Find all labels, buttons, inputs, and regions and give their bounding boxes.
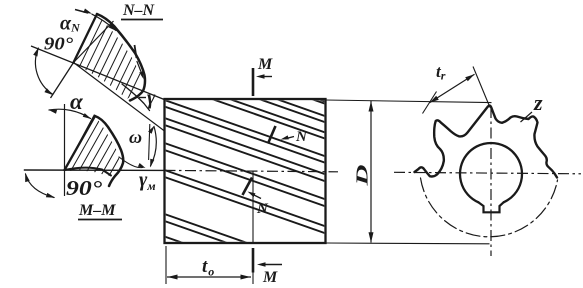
helix tooth line 10: [165, 221, 326, 277]
helix tooth line 5: [165, 143, 326, 199]
tooth back curve N-N: [97, 14, 145, 101]
end view vertical centerline: [490, 107, 492, 256]
tooth face line N-N: [74, 14, 98, 63]
svg-text:N: N: [295, 129, 308, 145]
tooth face line M-M: [65, 116, 96, 170]
helix tooth line 16: [312, 99, 326, 104]
svg-text:M: M: [257, 56, 273, 73]
helix tooth line 9: [165, 214, 326, 270]
dimension t_t line with arrows: [430, 74, 475, 103]
axis centerline dash-dot: [165, 170, 339, 171]
keyway: [478, 202, 503, 212]
helix tooth line 11: [165, 237, 326, 288]
dimension D line with arrows: [370, 101, 372, 243]
tangent line for alpha_N: [74, 21, 114, 63]
label z with leader: [521, 112, 533, 122]
cutter teeth outline: [415, 106, 558, 178]
helix tooth line 4: [165, 125, 326, 181]
section trace M vertical lower half: [252, 172, 254, 243]
helix tooth line 7: [165, 170, 326, 226]
svg-text:γ: γ: [147, 87, 156, 109]
helix tooth line 17: [318, 99, 326, 102]
svg-text:90°: 90°: [44, 34, 74, 54]
section mark M bottom: [252, 248, 255, 273]
dimension t0 extension line: [165, 246, 167, 284]
section flag N upper: [268, 126, 276, 144]
helix tooth line 2: [165, 107, 326, 163]
svg-text:ω: ω: [129, 127, 142, 147]
angle alpha_N arc with arrows: [75, 10, 88, 14]
helix tooth line 1: [165, 100, 326, 156]
tooth back curve M-M: [95, 116, 123, 186]
horizontal axis line through M-M vertex: [24, 169, 165, 171]
svg-text:D: D: [353, 165, 372, 188]
gamma_M arc with arrow: [119, 157, 143, 168]
helix tooth line 12: [212, 99, 326, 139]
svg-text:N: N: [256, 201, 269, 217]
tooth hatching N-N: [40, 5, 213, 115]
tooth tip circle dash-dot lower arc: [421, 178, 558, 237]
90 deg arc M-M: [26, 174, 55, 198]
svg-text:N–N: N–N: [122, 2, 156, 19]
dimension t0 line with arrows: [167, 276, 251, 278]
perpendicular ray from vertex: [51, 63, 74, 99]
trace line N through vertex to rect corner: [31, 46, 165, 100]
axis centerline continues right of D: [394, 172, 581, 174]
svg-text:z: z: [533, 90, 543, 115]
mark l with leader arrow: [135, 45, 137, 58]
helix tooth line 8: [165, 177, 326, 233]
face extension curve near corner: [122, 84, 150, 111]
tooth hatching M-M: [30, 95, 179, 185]
dimension D extension lines: [326, 100, 492, 103]
section mark M top: [252, 68, 255, 96]
svg-text:α: α: [70, 89, 84, 114]
tooth bottom curve M-M: [65, 168, 112, 176]
svg-text:M–M: M–M: [78, 202, 116, 219]
vertical reference line M-M: [64, 104, 66, 196]
helix tooth line 14: [259, 99, 326, 122]
90 deg arc N-N: [35, 48, 52, 94]
label gamma with dash: [139, 97, 146, 99]
section flag N lower: [243, 178, 253, 196]
gamma_M reference line: [149, 124, 150, 160]
angle omega arc: [151, 127, 157, 167]
dimension t_t extension lines: [423, 92, 437, 114]
helix trace line to rect edge: [74, 63, 165, 132]
cutter body rectangle: [165, 99, 326, 243]
helix tooth line 15: [277, 99, 326, 116]
bore circle: [460, 143, 522, 202]
angle alpha arc M-M: [49, 109, 91, 118]
svg-text:90°: 90°: [66, 176, 103, 200]
helix tooth line 3: [165, 118, 326, 174]
helix tooth line 6: [165, 150, 326, 206]
helix tooth line 13: [230, 99, 326, 133]
svg-text:M: M: [262, 269, 278, 286]
